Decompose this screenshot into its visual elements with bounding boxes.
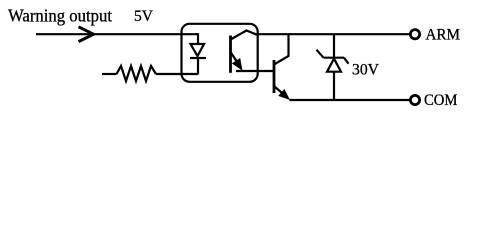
wire bottom to COM <box>290 99 410 101</box>
wire resistor to LED cathode <box>156 73 198 75</box>
transistor Q1 collector <box>274 33 289 64</box>
LED D1 anode lead <box>197 33 199 44</box>
wire photo emitter to Q1 base <box>236 70 274 72</box>
zener ZD1 right tab <box>344 58 349 64</box>
svg-text:5V: 5V <box>134 8 153 25</box>
svg-text:ARM: ARM <box>426 27 461 44</box>
zener ZD1 bottom lead <box>333 72 335 100</box>
terminal ARM <box>410 30 419 39</box>
transistor Q1 base bar <box>273 60 276 93</box>
wire top-left input <box>36 33 198 35</box>
phototransistor base bar <box>229 36 232 73</box>
transistor Q1 emitter <box>274 86 283 93</box>
wire top-right to ARM <box>255 33 410 35</box>
svg-text:30V: 30V <box>352 62 379 79</box>
transistor Q1 emitter arrow <box>278 89 290 100</box>
arrow signal direction <box>79 27 94 42</box>
terminal COM <box>410 95 419 104</box>
svg-text:COM: COM <box>424 92 458 109</box>
zener ZD1 triangle <box>327 59 341 72</box>
phototransistor collector <box>231 31 258 40</box>
zener ZD1 cathode bar <box>324 57 345 59</box>
wire lower-left stub <box>102 73 117 75</box>
phototransistor emitter <box>231 52 238 63</box>
LED D1 cathode bar <box>190 57 206 59</box>
LED D1 cathode lead <box>197 58 199 75</box>
phototransistor emitter arrow <box>232 58 243 71</box>
zener ZD1 top lead <box>333 34 335 58</box>
svg-text:Warning output: Warning output <box>8 5 112 25</box>
zener ZD1 left tab <box>317 50 324 58</box>
optocoupler U1 body <box>182 24 258 82</box>
LED D1 triangle <box>191 44 205 56</box>
resistor R1 <box>117 66 157 81</box>
